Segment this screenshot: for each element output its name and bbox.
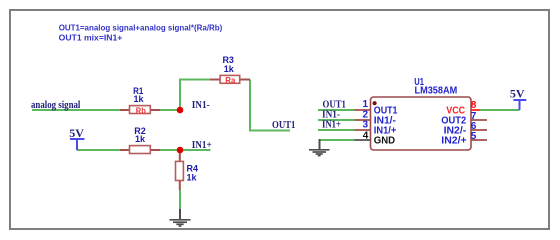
svg-text:IN2/+: IN2/+	[441, 136, 466, 147]
svg-text:IN1+: IN1+	[322, 120, 341, 131]
svg-text:1k: 1k	[133, 94, 144, 104]
svg-text:1k: 1k	[224, 64, 235, 74]
svg-text:Rb: Rb	[136, 106, 146, 115]
svg-text:1k: 1k	[187, 172, 198, 182]
svg-text:4: 4	[363, 130, 369, 141]
svg-text:OUT1=analog signal+analog sign: OUT1=analog signal+analog signal*(Ra/Rb)	[59, 23, 223, 33]
svg-text:OUT1 mix=IN1+: OUT1 mix=IN1+	[59, 33, 123, 43]
svg-text:5V: 5V	[69, 126, 84, 140]
svg-text:LM358AM: LM358AM	[415, 86, 458, 97]
svg-text:5: 5	[471, 131, 477, 142]
svg-text:8: 8	[471, 100, 477, 111]
svg-text:Ra: Ra	[225, 76, 236, 85]
svg-text:OUT1: OUT1	[272, 120, 295, 131]
svg-text:GND: GND	[374, 136, 395, 147]
svg-text:analog signal: analog signal	[31, 100, 81, 111]
svg-text:1k: 1k	[135, 134, 146, 144]
svg-text:5V: 5V	[510, 87, 525, 101]
svg-text:IN1-: IN1-	[192, 100, 210, 111]
svg-text:3: 3	[362, 119, 368, 130]
svg-text:IN1+: IN1+	[192, 140, 212, 151]
